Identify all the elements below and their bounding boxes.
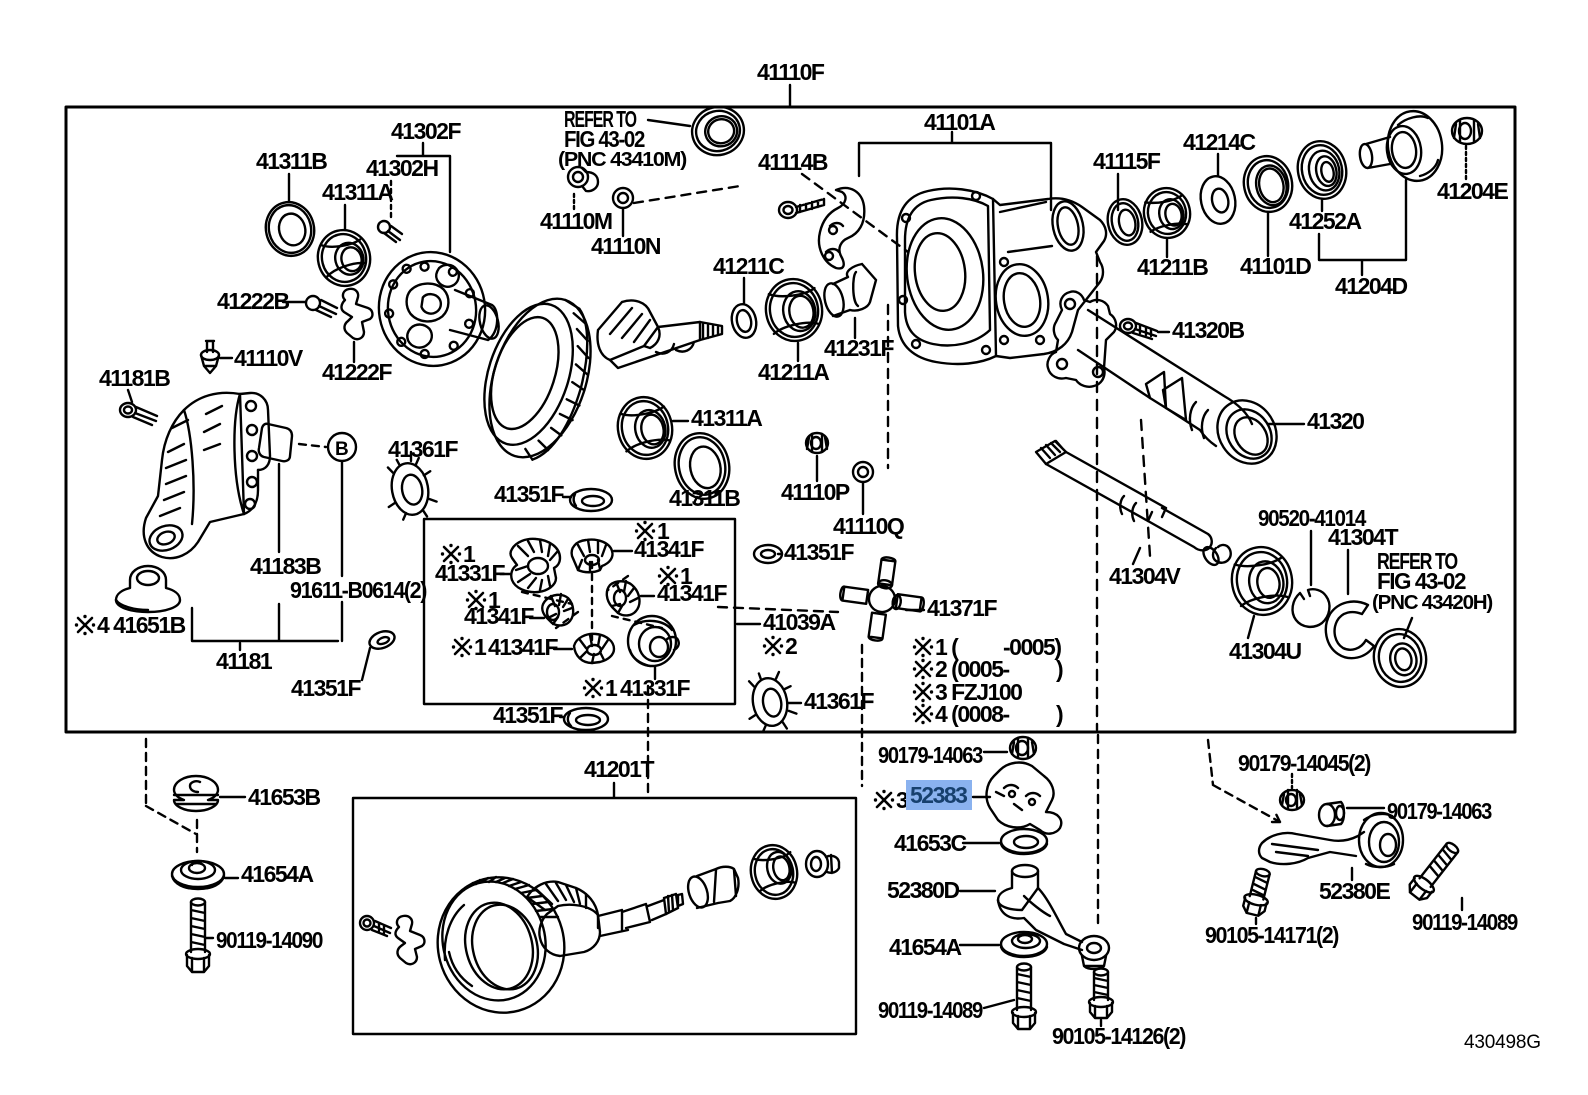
snap ring 41304T: [1326, 602, 1374, 659]
wire leader: [500, 573, 510, 575]
seal ring 41361F: [381, 454, 439, 522]
svg-text:-0005): -0005): [1003, 634, 1061, 660]
svg-text:41304V: 41304V: [1109, 563, 1181, 589]
bearing 41311A second: [612, 392, 678, 464]
wire 52383 leader: [973, 796, 990, 798]
wire 41114B dashed leader: [802, 174, 908, 252]
axle shaft 41304V: [1036, 441, 1066, 464]
svg-text:41654A: 41654A: [241, 861, 313, 887]
svg-text:41361F: 41361F: [804, 688, 874, 714]
svg-text:41222B: 41222B: [217, 288, 289, 314]
wire 41351F leader: [778, 553, 782, 555]
wire dashed cross in box: [591, 562, 593, 642]
svg-text:41311B: 41311B: [256, 148, 327, 174]
svg-text:52380E: 52380E: [1319, 878, 1390, 904]
svg-text:90119-14089: 90119-14089: [878, 997, 983, 1023]
wire 52380D leader: [960, 890, 995, 892]
wire leader: [641, 595, 654, 597]
wire 41201T leader: [613, 783, 615, 797]
bolt 90119-14090: [186, 899, 210, 973]
svg-text:52383: 52383: [910, 782, 967, 808]
svg-text:(PNC 43420H): (PNC 43420H): [1372, 592, 1493, 614]
wire 41320 leader: [1268, 423, 1304, 425]
wire B leader down: [341, 462, 343, 641]
svg-text:90179-14045(2): 90179-14045(2): [1238, 750, 1371, 776]
wire 41304T leader: [1347, 550, 1349, 594]
wire 90119-14089 leader: [984, 1000, 1014, 1008]
svg-text:41222F: 41222F: [322, 359, 392, 385]
inner differential-gear box: [424, 519, 735, 704]
svg-text:1: 1: [605, 675, 618, 701]
svg-text:52380D: 52380D: [887, 877, 959, 903]
svg-text:41320: 41320: [1307, 408, 1364, 434]
extension housing bracket 41181: [144, 393, 258, 558]
bearing 41211A: [761, 275, 827, 346]
svg-text:41101D: 41101D: [1240, 253, 1311, 279]
bearing 41304U: [1227, 542, 1298, 619]
svg-text:41302F: 41302F: [391, 118, 461, 144]
differential pinion kome1 top-right: [572, 540, 613, 573]
wire 41231F leader: [854, 318, 856, 338]
svg-text:41351F: 41351F: [784, 539, 854, 565]
wire dashed vertical x862: [861, 645, 863, 786]
svg-text:41371F: 41371F: [927, 595, 997, 621]
svg-text:4 41651B: 4 41651B: [97, 612, 186, 638]
wire 41304U leader: [1248, 616, 1254, 638]
side gear shaft tube 41320 flange: [1047, 291, 1116, 386]
seal ring 41361F second: [742, 668, 799, 734]
spacer 41231F: [833, 264, 876, 316]
label kome1 41341F right: [658, 566, 678, 586]
wire dashed right cluster: [1208, 740, 1280, 822]
svg-text:41110N: 41110N: [591, 233, 661, 259]
wire dashed from tube to spider: [1141, 420, 1150, 556]
svg-text:4 (0008-: 4 (0008-: [935, 701, 1010, 727]
svg-text:41110V: 41110V: [234, 345, 304, 371]
wire seal leader: [1404, 618, 1412, 638]
wire 41653B leader: [220, 796, 245, 798]
differential pinion kome1 bottom: [574, 634, 614, 663]
differential side gear kome1 bottom-right: [628, 616, 679, 666]
svg-text:41653C: 41653C: [894, 830, 966, 856]
legend kome4: [913, 704, 933, 724]
wire leader: [984, 751, 1007, 753]
svg-text:90179-14063: 90179-14063: [1387, 798, 1492, 824]
wire leader: [530, 617, 544, 619]
wire 41110V leader: [220, 357, 232, 359]
svg-text:41110Q: 41110Q: [833, 513, 904, 539]
label kome2: [763, 636, 783, 656]
svg-text:41361F: 41361F: [388, 436, 458, 462]
wire 41320B leader: [1158, 331, 1169, 333]
pinion shaft 41201T: [598, 900, 666, 936]
label kome1 41341F top-right: [635, 521, 655, 541]
bolt 90105-14171: [1241, 866, 1276, 917]
wire dashed vertical x1098 below frame: [1097, 735, 1099, 925]
svg-text:41039A: 41039A: [763, 609, 835, 635]
wire 41361F leader: [788, 702, 801, 704]
svg-text:41331F: 41331F: [435, 560, 505, 586]
differential pinion kome1 right: [607, 581, 640, 615]
svg-text:41302H: 41302H: [366, 155, 438, 181]
wire 41211C leader: [743, 278, 745, 303]
bottom 41201T box: [353, 798, 856, 1034]
differential pinion kome1 mid-left: [542, 594, 573, 625]
wire 90105-14171 leader: [1255, 918, 1257, 924]
bolt at 41114B: [779, 199, 824, 218]
seal washer 41351F right: [754, 545, 782, 563]
lock plate in 41201T box: [395, 916, 424, 964]
seal washer 41351F mid: [570, 489, 612, 511]
wire 41371F leader: [906, 609, 924, 611]
lock plate 41222F: [341, 289, 372, 339]
wire 41110N leader: [622, 209, 624, 236]
wire 41110P leader: [816, 456, 818, 481]
seal 41101D: [1239, 152, 1298, 217]
spider 41371F: [835, 552, 930, 647]
svg-text:2: 2: [785, 633, 797, 659]
svg-text:1: 1: [474, 634, 487, 660]
svg-text:430498G: 430498G: [1464, 1032, 1541, 1053]
wire dashed from washer to housing: [634, 186, 740, 203]
bearing 41211B: [1139, 184, 1194, 242]
pinion shaft: [610, 322, 700, 368]
wire 41653C leader: [963, 842, 999, 844]
knuckle stopper 52383: [987, 763, 1062, 834]
cushion 41653B: [174, 776, 218, 811]
washer 41654A left: [172, 861, 224, 889]
label kome1 41341F bottom-left: [452, 637, 472, 657]
svg-text:41110P: 41110P: [781, 479, 850, 505]
wire 90520 leader: [1310, 531, 1312, 585]
ring 41211C: [729, 302, 760, 340]
seal 41311B second: [669, 428, 736, 504]
wire 41361F leader: [410, 452, 412, 461]
wire 41181 bracket: [192, 604, 338, 650]
svg-text:90119-14089: 90119-14089: [1412, 909, 1518, 935]
wire 90179-14045 leader: [1291, 774, 1293, 788]
wire 90179-14063 leader right: [1347, 807, 1384, 809]
seal 41311B: [260, 197, 320, 261]
wire 41222F leader: [353, 342, 355, 362]
svg-text:41101A: 41101A: [924, 109, 995, 135]
wire 41204D bracket: [1319, 180, 1406, 275]
svg-text:41181B: 41181B: [99, 365, 170, 391]
idler arm 52380E: [1259, 813, 1403, 867]
wire 41110M leader: [573, 194, 575, 211]
svg-text:41204E: 41204E: [1437, 178, 1508, 204]
snap ring 90520-41014: [1293, 589, 1330, 627]
svg-text:41341F: 41341F: [464, 603, 534, 629]
svg-text:41183B: 41183B: [250, 553, 321, 579]
rubber cushion 41651B: [116, 566, 180, 612]
bearing cap fork 41114B: [819, 188, 864, 268]
wire 41351F leader: [563, 496, 571, 498]
svg-text:41341F: 41341F: [634, 536, 704, 562]
pinion splined end: [700, 322, 722, 340]
wire dashed 41039A: [718, 607, 838, 612]
washer 41654A mid: [1001, 932, 1047, 957]
pinion gear teeth: [598, 300, 660, 360]
bolt in 41201T box: [360, 916, 391, 936]
svg-text:41211A: 41211A: [758, 359, 829, 385]
node B circle: [328, 433, 356, 461]
label kome1 41331F left: [441, 544, 461, 564]
bearing 41252A: [1292, 137, 1351, 204]
svg-text:41201T: 41201T: [584, 756, 654, 782]
nut 41204E: [1452, 118, 1482, 144]
wire 41302H leader: [390, 181, 392, 221]
label kome4 41651B: [75, 615, 95, 635]
steering knuckle arm 52380D: [998, 865, 1109, 969]
wire 41222B leader: [283, 301, 306, 303]
svg-text:41114B: 41114B: [758, 149, 828, 175]
wire 41311B leader: [694, 497, 697, 503]
ring gear and drive pinion 41201: [465, 284, 609, 470]
spacer 41201T: [697, 867, 739, 908]
wire leader: [654, 667, 656, 679]
svg-text:41211C: 41211C: [713, 253, 784, 279]
washer 41214C: [1196, 173, 1239, 227]
bearing 41311A: [312, 225, 376, 292]
wire 90119-14090 leader: [206, 937, 213, 939]
trunnion of 41302F: [450, 290, 497, 340]
wire leader: [614, 550, 632, 552]
svg-text:41320B: 41320B: [1172, 317, 1244, 343]
companion flange 41204D: [1358, 108, 1446, 185]
svg-text:41311B: 41311B: [669, 485, 740, 511]
svg-text:41115F: 41115F: [1093, 148, 1161, 174]
legend kome3: [913, 682, 933, 702]
seal washer 41351F below box: [564, 708, 608, 730]
carrier housing 41101A: [897, 189, 1106, 364]
bolt 41181B: [120, 403, 157, 425]
bearing 41201T: [746, 841, 802, 903]
wire 41214C leader: [1217, 154, 1219, 176]
wire 41181B leader: [128, 390, 132, 402]
legend kome2: [913, 659, 933, 679]
wire leader: [554, 648, 572, 650]
bolt 41302H: [378, 221, 402, 242]
wire 41110Q leader: [862, 483, 864, 514]
bolt 41320B: [1120, 319, 1157, 339]
svg-text:B: B: [335, 439, 348, 460]
svg-text:41341F: 41341F: [657, 580, 727, 606]
svg-text:41252A: 41252A: [1289, 208, 1361, 234]
washer 41653C: [1001, 829, 1047, 854]
svg-text:41653B: 41653B: [248, 784, 320, 810]
wire 41183B leader: [278, 464, 280, 552]
wire 41204E leader: [1465, 146, 1467, 180]
wire 41211B leader: [1166, 239, 1168, 257]
svg-text:41351F: 41351F: [494, 481, 564, 507]
differential side gear kome1 top-left: [511, 539, 561, 592]
wire 41110F tick: [789, 85, 791, 106]
wire dashed vertical x648: [647, 686, 649, 795]
wire 41211A leader: [797, 343, 799, 361]
wire leader: [560, 716, 563, 718]
svg-text:41311A: 41311A: [691, 405, 762, 431]
seal PNC 43420H: [1369, 624, 1432, 692]
wire 41654A leader: [960, 944, 999, 946]
wire 41039A line: [737, 623, 760, 625]
svg-text:): ): [1056, 701, 1063, 727]
nut 41201T: [806, 851, 839, 877]
svg-text:91611-B0614(2): 91611-B0614(2): [290, 577, 427, 603]
svg-text:41304U: 41304U: [1229, 638, 1301, 664]
drive pinion 41201T: [527, 882, 598, 928]
wire dashed center vertical: [1096, 256, 1098, 730]
svg-text:FIG 43-02: FIG 43-02: [1377, 568, 1466, 594]
svg-text:41341F: 41341F: [488, 634, 558, 660]
wire 41252A leader: [1321, 200, 1323, 211]
bolt 41222B: [306, 296, 337, 317]
nut 41110P: [806, 433, 828, 453]
wire 41351F leader low: [362, 648, 370, 680]
breather plug 41110V: [201, 341, 219, 373]
svg-text:90105-14126(2): 90105-14126(2): [1052, 1023, 1186, 1049]
wire 41311A leader: [344, 205, 346, 229]
svg-text:90179-14063: 90179-14063: [878, 742, 983, 768]
svg-text:41311A: 41311A: [322, 179, 393, 205]
wire refer leader: [648, 120, 690, 126]
wire dashed vertical below housing: [887, 305, 889, 468]
wire 90119-14089 leader right: [1461, 898, 1463, 910]
svg-text:): ): [1056, 656, 1063, 682]
label kome1 41341F mid-left: [466, 590, 486, 610]
bolt 90119-14089 mid: [1012, 964, 1036, 1030]
bushing 90179-14063 right: [1319, 802, 1344, 826]
washer 41110Q: [853, 462, 873, 482]
differential case 41302F: [370, 244, 494, 375]
seal for REFER TO (PNC 43410M): [687, 101, 749, 160]
label kome3 52383 highlighted: [874, 790, 894, 810]
wire 41302F leader: [397, 143, 450, 252]
nut 90179-14045: [1280, 790, 1304, 810]
legend kome1: [913, 637, 933, 657]
nut 90179-14063: [1010, 737, 1036, 759]
svg-text:41204D: 41204D: [1335, 273, 1407, 299]
plug 41110M: [568, 167, 598, 191]
svg-text:41110F: 41110F: [757, 59, 825, 85]
wire 41311A leader: [673, 420, 688, 422]
wire 90105-14126 leader: [1100, 1020, 1102, 1026]
bolt 90105-14126: [1089, 969, 1113, 1019]
svg-text:41231F: 41231F: [824, 335, 894, 361]
wire 41304V leader: [1133, 548, 1140, 564]
bolt 90119-14089 right: [1405, 838, 1464, 904]
ring gear 41201T: [423, 863, 580, 1027]
washer 41110N: [613, 188, 633, 208]
wire 41654A leader: [225, 877, 238, 879]
gasket 41183B: [259, 424, 292, 462]
wire dashed frame bottom left: [146, 739, 197, 852]
svg-text:41214C: 41214C: [1183, 129, 1255, 155]
seal 41115F: [1104, 196, 1147, 248]
seal washer 41351F left low: [367, 628, 397, 652]
wire 52380E leader: [1351, 868, 1353, 880]
svg-text:41304T: 41304T: [1328, 524, 1398, 550]
wire 41115F leader: [1117, 174, 1119, 210]
wire 41311B leader: [288, 174, 290, 202]
main frame: [66, 107, 1515, 732]
svg-text:41351F: 41351F: [493, 702, 563, 728]
svg-text:90105-14171(2): 90105-14171(2): [1205, 922, 1339, 948]
svg-text:41110M: 41110M: [540, 208, 612, 234]
label kome1 41331F bottom: [583, 678, 603, 698]
svg-text:41181: 41181: [216, 648, 273, 674]
svg-text:90119-14090: 90119-14090: [216, 927, 323, 953]
svg-text:41211B: 41211B: [1137, 254, 1208, 280]
tube 41320 body: [1078, 310, 1252, 446]
svg-text:41351F: 41351F: [291, 675, 361, 701]
svg-text:41654A: 41654A: [889, 934, 961, 960]
wire 41101D leader: [1267, 213, 1269, 256]
wire gasket dashes to B: [299, 444, 326, 447]
wire 41101A bracket: [859, 132, 1051, 210]
